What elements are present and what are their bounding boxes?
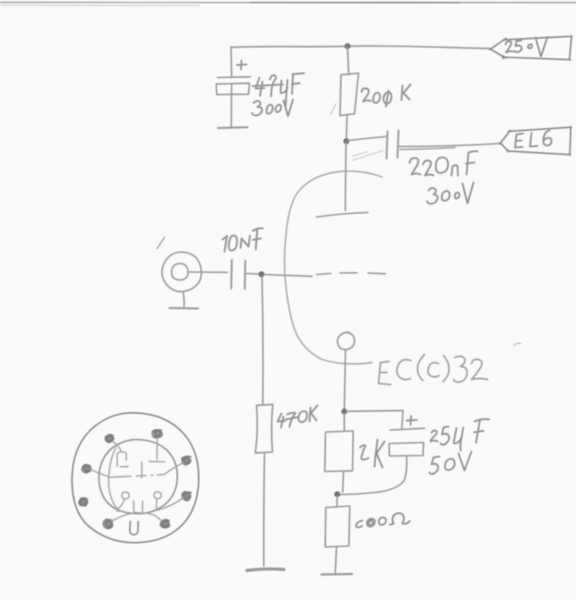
input jack J1 ground lead xyxy=(183,292,184,307)
capacitor C4 plus sign xyxy=(407,416,418,425)
socket pin 8 xyxy=(82,465,91,473)
capacitor C1 lead (bottom) xyxy=(230,85,232,127)
wire: C4 bottom to cathode bottom node xyxy=(340,457,407,495)
capacitor C1 plus sign xyxy=(237,61,247,70)
node: anode junction xyxy=(343,138,349,144)
tube socket inner circle xyxy=(99,439,177,513)
resistor R1 lead top xyxy=(348,47,349,75)
socket internal: pin3 link xyxy=(164,463,184,475)
value label 50V xyxy=(430,452,472,475)
socket internal: grid hook (n shape) xyxy=(117,452,128,467)
stray pencil mark near R1 xyxy=(331,104,384,161)
resistor R4 100ohm body xyxy=(325,506,350,547)
socket internal: left contour xyxy=(109,448,119,512)
capacitor C3 10nF right plate xyxy=(244,261,247,289)
ground: R4 xyxy=(322,573,353,576)
wire: jack to C3 xyxy=(189,271,228,273)
tube label EC(C)32 xyxy=(379,355,488,385)
value label 10nF xyxy=(223,228,264,251)
resistor R4 lead top xyxy=(336,496,339,507)
socket pin 1 xyxy=(105,434,114,442)
capacitor C1 top plate xyxy=(218,76,251,79)
capacitor C2 220nF right plate xyxy=(398,131,399,158)
net 250V flag xyxy=(490,36,573,60)
value label 4.7uF xyxy=(253,73,305,107)
socket internal: pin1 link xyxy=(113,442,122,452)
capacitor C2 220nF left plate xyxy=(387,132,388,159)
capacitor C4 bottom electrode xyxy=(389,443,424,457)
resistor R2 lead bottom xyxy=(263,453,266,566)
node: cathode junction xyxy=(341,409,347,415)
value label 300V (C1) xyxy=(252,100,293,117)
node: rail junction at R1 top xyxy=(345,43,351,49)
wire: anode junction to C2 xyxy=(348,137,386,141)
value label 470K xyxy=(278,406,318,428)
wire: cathode junction to C4 xyxy=(347,411,404,429)
resistor R3 lead top xyxy=(343,413,345,431)
wire: C2 to EL6 flag xyxy=(399,144,501,147)
tube socket outer rim xyxy=(72,413,199,543)
tube V1 anode lead xyxy=(344,142,347,211)
resistor R2 470K body xyxy=(255,404,272,453)
node: cathode bottom junction xyxy=(334,491,340,497)
tube V1 anode plate xyxy=(317,213,369,218)
socket internal: step wire xyxy=(141,462,143,478)
socket internal: pin4 link xyxy=(157,498,184,511)
ground: input jack xyxy=(170,307,199,310)
socket internal: grid dash-dot xyxy=(110,475,164,478)
value label 200K xyxy=(362,85,411,107)
wire: B+ rail from C1 to 250V flag xyxy=(231,46,491,49)
tube V1 grid dashed xyxy=(317,273,386,275)
capacitor C1 4.7uF lead (top) xyxy=(230,47,233,77)
socket key notch xyxy=(130,522,138,535)
socket pin 3 xyxy=(182,456,191,465)
tube V1 cathode circle xyxy=(337,332,354,349)
resistor R3 lead bottom xyxy=(342,472,345,493)
socket internal: bottom links xyxy=(111,513,162,522)
wire: grid node to tube grid xyxy=(264,275,313,277)
resistor R3 1K body xyxy=(325,431,353,472)
value label 220nF xyxy=(410,151,478,175)
resistor R1 anode 200K body xyxy=(340,73,359,115)
wire: C3 to grid node xyxy=(246,273,259,276)
socket internal: heater circle left xyxy=(117,492,129,512)
value label 1K xyxy=(360,440,385,468)
value label 300V (C2) xyxy=(427,183,474,204)
tube V1 cathode lead xyxy=(344,350,345,411)
net EL6 flag xyxy=(500,127,572,155)
value label 25uF xyxy=(431,419,490,450)
input jack J1 outer circle xyxy=(162,252,201,292)
ground: R2 470K xyxy=(247,569,284,571)
socket pin 4 xyxy=(182,492,191,501)
node: grid junction xyxy=(259,271,265,277)
capacitor C3 10nF left plate xyxy=(230,260,233,289)
capacitor C4 top plate xyxy=(390,428,425,430)
tube V1 envelope xyxy=(285,171,382,364)
socket pin 5 xyxy=(160,519,170,528)
resistor R4 lead bottom xyxy=(335,548,336,573)
socket internal: pin8 link xyxy=(90,470,109,478)
socket pin 2 xyxy=(152,430,162,438)
SECTION:TOP xyxy=(0,1,576,3)
value label 100ohm xyxy=(356,513,410,527)
socket internal: heater circle right xyxy=(154,492,161,510)
stray mark above jack xyxy=(157,238,165,249)
wire: grid node down to R2 xyxy=(262,277,263,405)
socket pin 6 xyxy=(103,519,113,528)
socket internal: cathode U xyxy=(134,501,143,514)
socket internal: anode tee xyxy=(149,439,165,462)
input jack J1 inner circle xyxy=(172,264,189,281)
stray pencil dash right of tube label xyxy=(514,343,522,345)
capacitor C1 bottom electrode xyxy=(216,83,249,94)
ground: C1 xyxy=(218,126,248,129)
resistor R1 lead bottom xyxy=(345,116,348,141)
socket pin 7 xyxy=(79,498,88,506)
